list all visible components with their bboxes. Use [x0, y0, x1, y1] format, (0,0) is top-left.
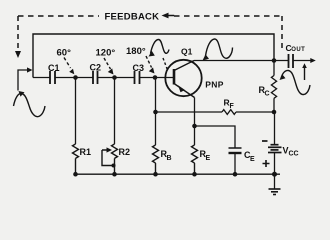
node collector/RC — [272, 58, 277, 63]
junction R1/bus — [73, 172, 78, 177]
collector sine wave annotation — [206, 39, 233, 58]
ground bus wire — [76, 173, 281, 175]
junction R2/bus — [112, 172, 117, 177]
output sine wave with arrow — [281, 70, 310, 94]
resistor RC — [273, 61, 275, 76]
svg-text:CC: CC — [289, 151, 299, 158]
feedback dashed line top — [18, 15, 99, 17]
junction CE/bus — [233, 172, 238, 177]
svg-text:C3: C3 — [133, 63, 145, 73]
180-shift sine annotation above Q1 — [151, 40, 170, 54]
emitter wire — [194, 98, 196, 127]
transistor Q1 — [165, 60, 201, 96]
node 180 deg — [153, 75, 158, 80]
R2 wiper arrow — [102, 150, 112, 166]
svg-text:E: E — [206, 155, 211, 162]
input sine wave — [14, 93, 46, 116]
battery minus sign — [262, 140, 268, 142]
feedback wire (box from collector to network input) — [33, 34, 274, 78]
feedback left arrowhead symbol — [162, 13, 169, 19]
svg-text:C2: C2 — [90, 63, 102, 73]
capacitor C3 — [135, 71, 140, 84]
collector wire — [194, 60, 311, 62]
feedback arrow down (left) — [15, 51, 21, 58]
resistor RF wire — [156, 111, 275, 113]
feedback dashed line right — [281, 16, 283, 49]
capacitor CE — [229, 147, 242, 149]
capacitor COUT — [289, 54, 294, 68]
capacitor C2 — [93, 71, 98, 84]
junction RB/bus — [153, 172, 158, 177]
resistor R1 — [75, 78, 77, 145]
wire phase-shift line — [33, 77, 174, 79]
svg-text:60°: 60° — [57, 48, 72, 59]
svg-text:E: E — [250, 156, 255, 163]
svg-text:Q1: Q1 — [181, 46, 193, 56]
svg-text:180°: 180° — [126, 46, 146, 57]
node RB/RF junction — [153, 110, 158, 115]
resistor RE — [194, 126, 196, 145]
node RC/RF/battery junction — [272, 110, 277, 115]
wire emitter to CE — [195, 126, 236, 148]
capacitor C1 — [50, 71, 55, 84]
ground — [274, 174, 276, 188]
svg-text:F: F — [230, 103, 235, 110]
junction battery/bus — [272, 172, 277, 177]
svg-text:PNP: PNP — [205, 80, 223, 90]
battery plus sign — [263, 160, 270, 167]
svg-text:R2: R2 — [119, 147, 131, 157]
svg-text:C1: C1 — [48, 63, 60, 73]
svg-text:120°: 120° — [96, 48, 116, 59]
svg-text:FEEDBACK: FEEDBACK — [105, 11, 160, 22]
node 120 deg — [112, 75, 117, 80]
svg-text:OUT: OUT — [291, 47, 305, 53]
input wire with arrow — [18, 70, 27, 91]
node emitter junction — [192, 124, 197, 129]
resistor R2 (variable) — [114, 78, 116, 145]
svg-text:B: B — [167, 155, 172, 162]
output arrowhead — [310, 58, 316, 63]
resistor RB — [155, 78, 157, 146]
junction RE/bus — [192, 172, 197, 177]
feedback dashed line left — [17, 16, 19, 51]
svg-text:R1: R1 — [80, 147, 92, 157]
svg-text:C: C — [265, 91, 270, 98]
battery VCC — [274, 112, 276, 145]
node 60 deg — [73, 75, 78, 80]
dashed arrow into base — [163, 58, 168, 70]
